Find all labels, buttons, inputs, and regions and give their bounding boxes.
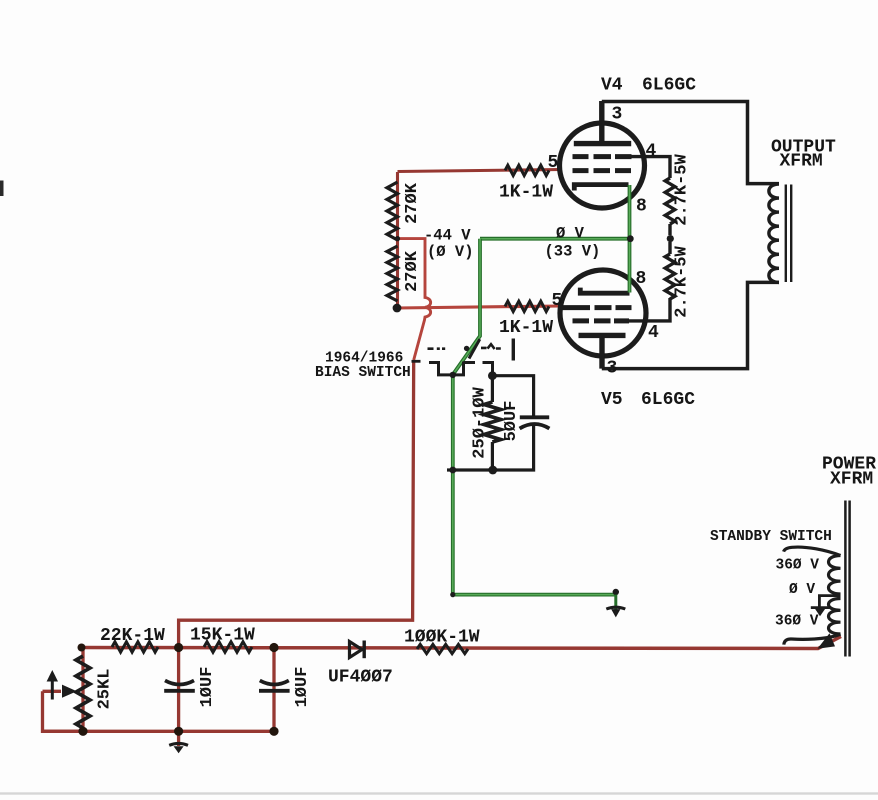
- wire cathode bus V4-V5 (green): [628, 185, 632, 293]
- junction dot node pot top: [78, 644, 86, 652]
- V4 pin 4 wire: [615, 154, 632, 159]
- bias switch wiper arm: [469, 339, 480, 358]
- svg-text:5: 5: [552, 291, 563, 311]
- svg-text:1ØUF: 1ØUF: [293, 667, 312, 708]
- tube V5 envelope: [560, 270, 646, 356]
- potentiometer 25KL element: [76, 656, 90, 728]
- svg-text:27ØK: 27ØK: [403, 250, 422, 292]
- svg-text:2.7K-5W: 2.7K-5W: [673, 154, 692, 226]
- power xfrm core: [845, 501, 849, 657]
- wire bias drop from switch to rail (red): [179, 360, 414, 648]
- svg-text:25Ø-1ØW: 25Ø-1ØW: [471, 387, 490, 459]
- svg-text:36Ø V: 36Ø V: [775, 614, 819, 630]
- svg-text:8: 8: [636, 269, 647, 289]
- svg-text:XFRM: XFRM: [830, 470, 873, 490]
- svg-text:BIAS SWITCH: BIAS SWITCH: [315, 365, 411, 381]
- power xfrm winding lower 360V: [829, 599, 841, 635]
- junction dot node 15K/diode: [269, 643, 278, 652]
- junction dot 270K/grid wire: [393, 304, 402, 313]
- junction dot green/channel: [450, 372, 456, 378]
- tube V4 envelope: [560, 123, 645, 208]
- svg-text:22K-1W: 22K-1W: [100, 626, 165, 646]
- resistor 100K-1W: [417, 644, 468, 653]
- svg-text:XFRM: XFRM: [780, 152, 823, 172]
- wire 0V line (green): [480, 237, 631, 241]
- svg-text:15K-1W: 15K-1W: [190, 626, 255, 646]
- wire cap C1 branch (red): [177, 648, 180, 732]
- junction dot 270K branch: [395, 236, 400, 241]
- svg-text:Ø V: Ø V: [556, 225, 585, 243]
- bias switch linkage wiggle: [488, 344, 495, 349]
- junction dot switch/250 top: [488, 371, 497, 380]
- svg-text:4: 4: [646, 142, 657, 162]
- output xfrm primary winding: [769, 184, 779, 282]
- wire ground rail bottom (red): [43, 731, 275, 746]
- svg-text:27ØK: 27ØK: [403, 182, 422, 224]
- V4 control grid (pin 5 row): [573, 168, 632, 173]
- junction dot node gnd rail 2: [269, 727, 278, 736]
- ground (bias return): [613, 589, 619, 595]
- V4 plate: [574, 101, 631, 144]
- bias switch linkage dot: [464, 346, 469, 351]
- V5 screen grid (pin 4 row): [573, 318, 611, 323]
- output xfrm core: [786, 185, 791, 283]
- resistor 1K-1W upper (V4 grid): [505, 165, 549, 175]
- wire grid V5 (red) y=307: [397, 306, 561, 308]
- junction dot node gnd rail 1: [174, 727, 183, 736]
- svg-text:3: 3: [612, 105, 623, 125]
- bottom 360V tap arm: [784, 634, 841, 645]
- resistor 2.7K-5W upper: [665, 178, 675, 224]
- bias switch pole channel: [429, 362, 475, 375]
- svg-text:36Ø V: 36Ø V: [776, 558, 820, 574]
- capacitor 10UF #1: [165, 681, 194, 685]
- V4 screen grid (pin 4 row): [573, 154, 612, 159]
- junction dot node pot bottom: [78, 727, 87, 736]
- resistor 270K lower: [387, 246, 398, 301]
- junction dot green/bottom rail: [449, 467, 456, 474]
- resistor 2.7K-5W lower: [668, 242, 671, 254]
- resistor 1K-1W lower (V5 grid): [505, 301, 549, 311]
- svg-text:4: 4: [648, 323, 659, 343]
- bias switch contact 2 tick: [483, 363, 493, 376]
- wire grid V4 (red) y=171: [398, 170, 562, 172]
- svg-text:8: 8: [636, 197, 647, 217]
- potentiometer wiper arrow: [62, 685, 77, 698]
- wire V4 plate to output xfrm: [602, 102, 779, 184]
- svg-text:V4: V4: [601, 76, 623, 96]
- V5 pin 4 wire: [614, 318, 629, 323]
- bias switch contact 1 tick: [412, 360, 421, 363]
- B+ connection arrowhead: [818, 633, 836, 649]
- capacitor 10UF #2: [260, 681, 289, 685]
- svg-text:3: 3: [607, 359, 618, 379]
- wire bias branch with hop over grid wire (red): [398, 239, 431, 360]
- svg-text:STANDBY SWITCH: STANDBY SWITCH: [710, 529, 832, 545]
- wire 50UF to bottom rail: [447, 425, 534, 470]
- svg-text:25KL: 25KL: [96, 669, 115, 710]
- svg-text:5: 5: [548, 153, 559, 173]
- svg-text:(33 V): (33 V): [545, 243, 601, 261]
- junction dot between 2.7K resistors: [667, 235, 674, 242]
- resistor 250-10W: [491, 376, 494, 402]
- resistor 15K-1W: [204, 642, 252, 652]
- svg-text:Ø V: Ø V: [789, 582, 815, 598]
- svg-text:V5: V5: [601, 390, 623, 410]
- scan mark left edge: [0, 181, 4, 197]
- bias switch end terminal bar: [512, 339, 515, 361]
- svg-text:UF4ØØ7: UF4ØØ7: [328, 668, 393, 688]
- scan line bottom: [0, 792, 878, 794]
- wire bias return (green): [453, 239, 616, 595]
- 0V center tap with arrow: [819, 596, 840, 608]
- junction dot node bias tap: [174, 643, 183, 652]
- svg-text:2.7K-5W: 2.7K-5W: [673, 246, 692, 318]
- junction dot 250 bottom: [488, 466, 497, 475]
- resistor 22K-1W: [112, 642, 158, 652]
- wire cap C2 branch (red): [272, 648, 275, 732]
- wire 270K rail (red): [396, 172, 399, 309]
- svg-text:1ØØK-1W: 1ØØK-1W: [404, 628, 480, 648]
- svg-text:1K-1W: 1K-1W: [499, 183, 553, 203]
- junction dot green corner: [450, 592, 455, 597]
- V5 plate: [579, 335, 626, 368]
- svg-text:6L6GC: 6L6GC: [641, 390, 695, 410]
- V5 control grid (pin 5 row): [562, 305, 632, 310]
- wire pot branches (red): [43, 648, 84, 732]
- svg-text:5ØUF: 5ØUF: [502, 401, 521, 442]
- capacitor 50UF plate top: [520, 415, 549, 419]
- standby switch arm (open, top tap): [784, 547, 841, 555]
- wire output xfrm to V5 plate: [602, 282, 779, 368]
- ground (bias supply): [169, 743, 188, 745]
- bias switch linkage dashes: [428, 347, 501, 350]
- V4 cathode: [574, 185, 628, 191]
- junction dot cathode bus: [627, 235, 634, 242]
- svg-text:1K-1W: 1K-1W: [499, 318, 553, 338]
- capacitor 50UF plate bottom (curved): [520, 424, 550, 429]
- wire switch to RC network: [492, 376, 533, 416]
- svg-text:1ØUF: 1ØUF: [198, 667, 217, 708]
- wire B- bottom rail (red): [81, 637, 841, 649]
- svg-text:6L6GC: 6L6GC: [642, 76, 696, 96]
- V5 cathode: [580, 288, 629, 294]
- resistor 270K upper: [387, 182, 398, 240]
- svg-text:(Ø V): (Ø V): [427, 243, 474, 261]
- diode UF4007: [350, 642, 363, 658]
- power xfrm winding upper 360V: [829, 556, 841, 595]
- svg-text:-44 V: -44 V: [424, 227, 471, 245]
